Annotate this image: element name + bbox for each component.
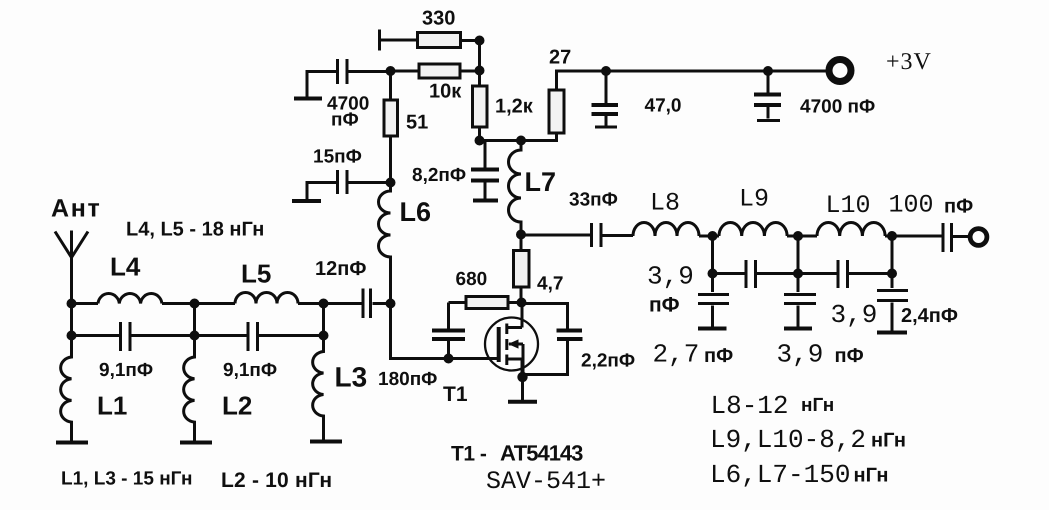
terminal (output) <box>970 229 987 246</box>
ground bar (2,7пФ) <box>698 327 727 331</box>
ground bar (3,9пФ mid) <box>784 327 812 331</box>
node <box>708 231 718 241</box>
svg-text:нГн: нГн <box>801 395 834 416</box>
wire <box>521 234 592 237</box>
ground bar (under 4700пФ) <box>294 97 322 101</box>
svg-text:+3V: +3V <box>886 49 932 75</box>
capacitor 9,1пФ (first) <box>121 322 131 351</box>
svg-text:15пФ: 15пФ <box>313 147 362 168</box>
capacitor 2,7пФ (shunt) <box>711 274 714 327</box>
svg-text:1,2к: 1,2к <box>495 96 534 118</box>
wire <box>520 287 523 303</box>
capacitor 12пФ <box>363 289 371 319</box>
wire row2 <box>72 334 324 337</box>
svg-text:L3: L3 <box>335 362 368 393</box>
svg-text:L5: L5 <box>241 259 271 289</box>
resistor 10к <box>419 64 460 78</box>
svg-text:4700 пФ: 4700 пФ <box>800 97 875 118</box>
node (330/10k corner) <box>475 36 485 46</box>
wire <box>389 71 392 183</box>
svg-text:L10: L10 <box>826 191 871 220</box>
svg-text:10к: 10к <box>429 81 462 103</box>
svg-text:АТ54143: АТ54143 <box>500 441 583 466</box>
svg-text:L6: L6 <box>400 197 432 227</box>
svg-text:L1: L1 <box>97 391 127 421</box>
wire <box>787 235 817 238</box>
svg-text:L2 - 10 нГн: L2 - 10 нГн <box>221 469 332 492</box>
inductor L9 <box>719 222 787 236</box>
ground bar (under 8,2пФ) <box>473 199 498 203</box>
resistor 330 <box>418 33 461 48</box>
svg-text:9,1пФ: 9,1пФ <box>99 360 153 381</box>
transistor T1 (MOSFET) <box>485 318 538 371</box>
capacitor 2,4пФ (shunt right) <box>891 274 894 331</box>
svg-text:L1, L3 - 15 нГн: L1, L3 - 15 нГн <box>61 469 192 490</box>
resistor 4,7 <box>520 235 523 251</box>
capacitor 8,2пФ <box>484 141 487 200</box>
capacitor 4700 пФ (left) <box>338 59 348 84</box>
svg-text:9,1пФ: 9,1пФ <box>223 360 277 381</box>
inductor L2 <box>184 336 195 442</box>
capacitor 180пФ (feedback) <box>447 303 450 359</box>
svg-text:Т1 -: Т1 - <box>451 443 487 466</box>
node (ant) <box>67 299 77 309</box>
ground (source) <box>521 377 524 400</box>
node (10k right) <box>475 66 485 76</box>
resistor 1,2к <box>478 71 481 87</box>
capacitor 2,2пФ <box>522 304 568 375</box>
ground bar (L1) <box>56 441 88 445</box>
inductor L1 <box>61 336 72 442</box>
svg-text:L7: L7 <box>525 167 557 197</box>
svg-text:L8: L8 <box>650 189 680 218</box>
capacitor 47,0 <box>605 71 608 126</box>
node (gate/cap junction) <box>444 354 454 364</box>
svg-text:Ант: Ант <box>51 195 102 223</box>
svg-text:нГн: нГн <box>854 465 889 487</box>
svg-text:4,7: 4,7 <box>537 274 563 295</box>
inductor L8 <box>633 223 699 237</box>
svg-text:180пФ: 180пФ <box>378 369 437 390</box>
svg-text:пФ: пФ <box>835 345 864 367</box>
svg-text:8,2пФ: 8,2пФ <box>412 165 466 186</box>
svg-text:пФ: пФ <box>331 110 359 131</box>
svg-text:3,9: 3,9 <box>777 340 824 370</box>
nodes level2 <box>708 269 718 279</box>
svg-text:L6,L7-150: L6,L7-150 <box>710 460 850 490</box>
resistor 51 <box>384 100 398 136</box>
resistor 27 <box>549 90 564 133</box>
svg-text:2,7: 2,7 <box>653 340 700 370</box>
node (47,0 tap) <box>601 66 611 76</box>
wire (row to 27) <box>480 133 557 141</box>
wire <box>478 41 481 71</box>
capacitor 33пФ <box>592 223 602 247</box>
wire <box>601 234 633 237</box>
svg-text:нГн: нГн <box>871 430 906 452</box>
wire (gate feed) <box>391 304 498 359</box>
svg-text:пФ: пФ <box>704 345 733 367</box>
wire <box>952 235 969 238</box>
wire <box>391 70 480 73</box>
svg-text:L4: L4 <box>110 252 141 282</box>
wire <box>380 39 418 42</box>
wire <box>885 235 943 238</box>
wire row1 <box>72 302 99 305</box>
capacitor 3,9пФ (shunt mid) <box>797 274 800 327</box>
svg-text:пФ: пФ <box>944 196 973 218</box>
inductor L3 <box>313 336 324 441</box>
terminal +3V <box>829 60 851 82</box>
terminal bar (left of R 330) <box>378 30 381 51</box>
svg-text:L8-12: L8-12 <box>711 391 789 421</box>
node <box>793 231 803 241</box>
wire <box>461 39 480 42</box>
node <box>319 299 329 309</box>
node (L7 top) <box>516 136 526 146</box>
svg-text:3,9: 3,9 <box>647 262 694 292</box>
wire level2 <box>713 272 893 275</box>
inductor L5 <box>235 293 298 304</box>
node <box>190 299 200 309</box>
capacitor 100 пФ <box>943 223 952 252</box>
wire <box>699 235 719 238</box>
svg-text:330: 330 <box>422 8 455 30</box>
node <box>887 231 897 241</box>
svg-text:2,4пФ: 2,4пФ <box>901 305 958 327</box>
inductor L10 <box>817 222 885 236</box>
svg-text:51: 51 <box>406 112 428 134</box>
svg-text:3,9: 3,9 <box>831 300 878 330</box>
svg-text:L4, L5 - 18 нГн: L4, L5 - 18 нГн <box>126 219 264 241</box>
svg-text:33пФ: 33пФ <box>569 190 618 211</box>
wire <box>298 302 363 305</box>
node (51 / 15пФ / L6) <box>386 178 396 188</box>
verticals to row2 <box>72 304 324 336</box>
svg-text:T1: T1 <box>443 383 468 406</box>
capacitor (712-798 coupling) <box>746 260 756 288</box>
svg-text:100: 100 <box>889 191 934 220</box>
node (10k left / C4700 / R51) <box>386 66 396 76</box>
ground bar (L3) <box>310 440 342 444</box>
nodes row2 <box>67 331 77 341</box>
inductor L6 <box>379 183 391 304</box>
node (4700пФ tap) <box>763 66 773 76</box>
antenna <box>55 231 88 304</box>
capacitor 9,1пФ (second) <box>248 322 258 351</box>
node (source) <box>517 372 527 382</box>
wire + rail +3V <box>557 71 830 90</box>
svg-text:L9: L9 <box>739 185 769 214</box>
inductor L7 <box>509 141 522 235</box>
verticals to level2 <box>713 236 893 274</box>
inductor L4 <box>98 294 162 304</box>
wire <box>478 127 481 141</box>
svg-text:L2: L2 <box>222 391 252 421</box>
ground bar (under 15пФ) <box>292 199 321 203</box>
node (L7 bottom) <box>516 230 526 240</box>
svg-text:пФ: пФ <box>649 294 680 317</box>
node (1,2k bottom) <box>475 136 485 146</box>
svg-text:680: 680 <box>456 269 488 290</box>
ground bar (2,4пФ) <box>877 331 907 335</box>
svg-text:SAV-541+: SAV-541+ <box>486 467 606 496</box>
wire <box>162 302 235 305</box>
capacitor 15пФ <box>338 170 348 194</box>
svg-text:47,0: 47,0 <box>645 96 682 117</box>
svg-text:12пФ: 12пФ <box>315 258 366 280</box>
resistor 680 <box>466 297 508 309</box>
svg-text:2,2пФ: 2,2пФ <box>581 351 635 372</box>
svg-text:L9,L10-8,2: L9,L10-8,2 <box>710 425 866 455</box>
ground bar (L2) <box>180 441 212 445</box>
node (L6 bottom / 12пФ) <box>386 299 396 309</box>
svg-text:27: 27 <box>549 47 571 69</box>
capacitor (798-892 coupling) <box>838 260 848 288</box>
capacitor 4700 пФ (rail) <box>767 71 770 119</box>
node (drain) <box>517 298 527 308</box>
